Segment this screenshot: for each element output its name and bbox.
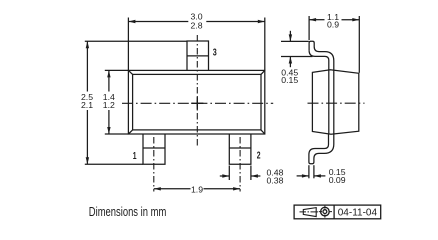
svg-text:1.9: 1.9 — [191, 185, 203, 195]
svg-text:2: 2 — [257, 149, 261, 161]
svg-text:3: 3 — [213, 46, 217, 58]
svg-text:0.9: 0.9 — [327, 20, 339, 30]
svg-text:04-11-04: 04-11-04 — [338, 207, 378, 218]
svg-text:1: 1 — [133, 150, 137, 162]
svg-text:0.09: 0.09 — [329, 175, 346, 185]
svg-text:2.1: 2.1 — [81, 100, 93, 110]
svg-text:2.8: 2.8 — [190, 20, 202, 30]
svg-text:0.15: 0.15 — [281, 75, 298, 85]
svg-text:1.2: 1.2 — [103, 100, 115, 110]
svg-text:Dimensions in mm: Dimensions in mm — [89, 204, 167, 219]
svg-text:0.38: 0.38 — [267, 176, 284, 186]
